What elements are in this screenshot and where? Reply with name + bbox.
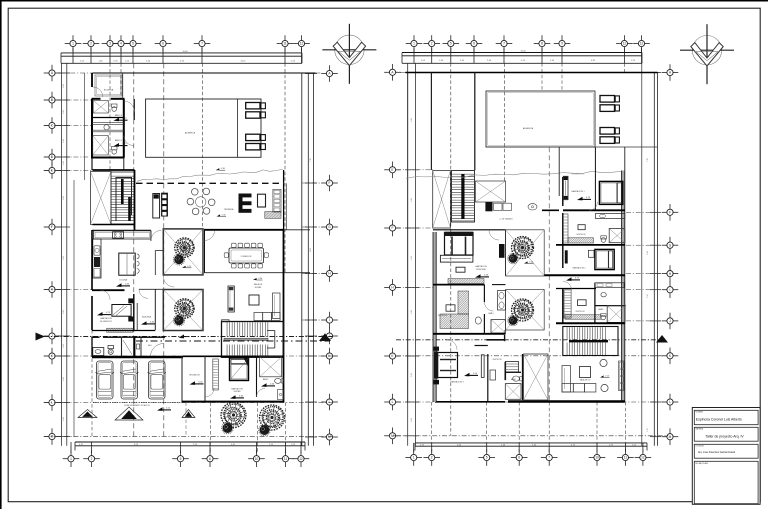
terrace shelf strip	[273, 189, 281, 212]
grid line 7 vertical left-plan	[202, 63, 204, 230]
hab principal tv	[456, 267, 465, 272]
door arc hab2 right-plan	[563, 282, 572, 291]
comedor chairs ends	[224, 253, 268, 258]
title block row 3 - docente	[694, 444, 758, 458]
svg-text:7.30: 7.30	[647, 158, 649, 162]
svg-text:10: 10	[595, 456, 599, 460]
grid bubble 4 top left-plan	[113, 35, 130, 52]
grid bubble K left side right-plan	[384, 348, 401, 365]
wall terrace right inner line	[285, 183, 287, 230]
wall comedor bottom	[204, 272, 310, 274]
wall baths right x124 lower stub	[123, 158, 125, 171]
title block frame	[692, 408, 760, 505]
sheet outer left edge	[0, 0, 2, 509]
svg-text:BAÑO: BAÑO	[488, 312, 494, 315]
svg-text:2.46: 2.46	[63, 310, 65, 314]
level marker patio1 right-plan	[524, 261, 534, 263]
wall left outer upper	[91, 73, 93, 170]
svg-text:2.46: 2.46	[63, 256, 65, 260]
wall row H left-plan	[92, 289, 125, 291]
section cut dashed through stairs	[136, 340, 330, 342]
service nightstand upper dark	[128, 298, 133, 303]
svg-text:ALBERCA: ALBERCA	[185, 132, 196, 135]
hall small box	[137, 344, 140, 349]
svg-text:2: 2	[431, 456, 433, 460]
grid row M datum left-plan	[44, 436, 333, 438]
grid bubble D left side left-plan	[44, 149, 61, 166]
grid line 4 vertical left-plan	[120, 63, 122, 99]
terrace hatched bench	[265, 212, 281, 219]
wall x625 upper right-plan	[624, 147, 626, 171]
hab3 door leaf	[481, 355, 484, 378]
grid line 7b vertical interior right-plan	[548, 147, 550, 402]
level marker recibidor	[190, 381, 204, 385]
grid row M datum right-plan	[393, 435, 668, 437]
wall y275 right-plan	[544, 274, 625, 276]
sala tv sofa L vertical	[562, 366, 571, 393]
svg-text:C. DE LAVADO: C. DE LAVADO	[499, 218, 513, 221]
grid row H datum left-plan	[44, 289, 93, 291]
door arc bano guest	[257, 389, 266, 398]
svg-text:12: 12	[300, 42, 304, 46]
garage car 3	[148, 361, 166, 399]
wall row H door segment	[139, 288, 163, 290]
level marker hab2	[566, 277, 580, 281]
grid bubble H left side right-plan	[384, 279, 401, 296]
grid row G datum right side left-plan	[302, 226, 321, 228]
grid bubble A left side left-plan	[44, 65, 61, 82]
bath guest toilet	[275, 378, 284, 383]
grid line 1 vertical lower left-plan	[70, 446, 72, 453]
grid line 7 vertical right-plan	[504, 63, 506, 181]
door arc service room	[101, 290, 111, 300]
svg-text:11: 11	[623, 42, 627, 46]
bath4 tub	[93, 101, 108, 114]
vestidor4 bench	[490, 370, 496, 380]
grid row H datum right side right-plan	[626, 273, 663, 275]
grid bubble 11 top left-plan	[277, 35, 294, 52]
wall row J piece right-plan	[487, 335, 505, 341]
wall east gray band right-plan	[622, 171, 625, 403]
comedor chairs top row	[232, 243, 263, 247]
grid bubble F left side right-plan	[384, 220, 401, 237]
patio bush upper	[173, 254, 184, 265]
door arc vestidor3 right-plan	[484, 302, 493, 311]
grid bubble F left side left-plan	[44, 219, 61, 236]
wall vestidor2 top y288	[556, 288, 596, 290]
grid bubble 7 top right-plan	[496, 35, 513, 52]
svg-text:6: 6	[162, 42, 164, 46]
garage car 2	[120, 361, 138, 399]
svg-text:8: 8	[541, 42, 543, 46]
svg-text:1.50: 1.50	[647, 294, 649, 298]
svg-text:12: 12	[299, 457, 303, 461]
driveway bush 2	[259, 424, 271, 436]
grid row D datum left-plan	[44, 156, 90, 158]
label HABITACION VISITAS	[231, 387, 243, 393]
grid bubble H right side left-plan	[321, 265, 338, 282]
terrace shelf unit dark	[161, 193, 168, 217]
svg-text:6: 6	[209, 457, 211, 461]
wall gray inner x434 right-plan	[433, 232, 436, 402]
svg-text:7: 7	[503, 42, 505, 46]
pool room alberca rect left-plan	[146, 99, 261, 157]
wall rooms west x563 lower	[562, 289, 564, 324]
svg-text:Espinosa Coronel Luis Alberto: Espinosa Coronel Luis Alberto	[696, 417, 742, 421]
svg-text:2.46: 2.46	[647, 251, 649, 255]
wall hall x134 lower	[134, 337, 136, 357]
patio tree lower	[175, 299, 194, 318]
grid bubble 11 top right-plan	[616, 35, 633, 52]
svg-text:L: L	[392, 400, 394, 404]
level marker alacena	[141, 321, 155, 325]
patio tree upper	[175, 238, 194, 257]
vestidor4 shelf L	[505, 362, 518, 381]
wall alacena right x155	[154, 289, 156, 330]
grid bubble I right side left-plan	[321, 312, 338, 329]
svg-text:ALACENA: ALACENA	[142, 316, 152, 319]
svg-text:MATERIA: MATERIA	[696, 428, 704, 431]
grid line 8 vertical right-plan	[541, 63, 543, 91]
sala sofa L right	[273, 293, 281, 319]
habitacion1 bed	[599, 181, 622, 204]
door arc hab ppal right-plan	[489, 230, 499, 240]
bath divider wall x121	[121, 337, 123, 357]
right dimension band left-plan	[305, 73, 317, 446]
grid bubble 11 bottom left-plan	[277, 450, 294, 467]
stair xbox upper	[91, 172, 112, 225]
grid bubble 2 bottom right-plan	[423, 449, 440, 466]
svg-text:2.46: 2.46	[63, 417, 65, 421]
wall rooms west x563 mid	[562, 213, 564, 268]
wall y334 right-plan	[433, 333, 506, 335]
bath2 toilet2	[601, 314, 606, 320]
grid row B datum left-plan	[44, 99, 92, 101]
comedor dining table	[229, 248, 264, 263]
grid bubble 6 bottom left-plan	[202, 450, 219, 467]
wall stairhall top	[93, 169, 135, 171]
wall rooms top y356 east part	[183, 355, 284, 357]
vestidor1 closet ladder	[563, 214, 568, 243]
svg-text:HABITACION 2: HABITACION 2	[573, 266, 586, 269]
grid bubble 6 bottom right-plan	[511, 449, 528, 466]
grid bubble A left side right-plan	[384, 64, 401, 81]
svg-text:5: 5	[180, 457, 182, 461]
svg-text:6: 6	[473, 42, 475, 46]
patio xbox 1 right-plan	[506, 230, 545, 276]
svg-text:BAÑO 4: BAÑO 4	[115, 114, 123, 117]
grid row K datum right-plan	[396, 355, 663, 357]
svg-text:L: L	[329, 400, 331, 404]
grid bubble 1 bottom right-plan	[405, 449, 422, 466]
svg-text:TERRAZA: TERRAZA	[224, 208, 234, 211]
grid bubble J left side left-plan	[44, 328, 61, 345]
svg-text:PRINCIPAL: PRINCIPAL	[476, 268, 486, 271]
grid line 6 vertical lower left-plan	[209, 403, 211, 454]
hab principal bed	[445, 232, 474, 255]
grid row I datum right side right-plan	[626, 289, 663, 291]
patio kitchen closet stub	[155, 251, 163, 276]
svg-text:12: 12	[640, 42, 644, 46]
svg-text:2: 2	[91, 457, 93, 461]
svg-text:VESTIDOR: VESTIDOR	[575, 311, 585, 313]
slope annotation line terrace	[137, 169, 283, 181]
door arc kitchen	[151, 230, 162, 241]
wall y402 left segment right-plan	[435, 401, 505, 403]
entry arrow row J right	[179, 334, 190, 338]
svg-text:NOMBRE: NOMBRE	[696, 412, 704, 414]
bath2 mid wall	[595, 305, 626, 307]
door arc patio1 left-plan	[163, 276, 174, 287]
grid bubble C left side left-plan	[44, 117, 61, 134]
wall rooms west x563	[562, 177, 564, 206]
grid bubble M left side right-plan	[384, 428, 401, 445]
svg-text:L: L	[669, 400, 671, 404]
wall y245 right-plan	[556, 244, 625, 246]
patio bush 2 right-plan	[508, 315, 518, 325]
grid bubble 5 bottom right-plan	[478, 449, 495, 466]
sheet outer top edge	[0, 0, 768, 2]
stair xbox right-plan	[433, 171, 451, 229]
svg-text:COCINA: COCINA	[119, 279, 128, 282]
habitacion2 nightstand	[588, 250, 594, 257]
vestidor3 hatch horizontal	[440, 314, 469, 329]
terrace coffee table	[258, 194, 266, 207]
grid bubble M left side left-plan	[44, 428, 61, 445]
stairwell right-plan upper	[452, 171, 475, 223]
wall comedor left	[204, 230, 206, 273]
driveway speed bump 2	[115, 407, 143, 420]
hall door arc	[151, 344, 164, 357]
svg-text:HABITACION 3: HABITACION 3	[451, 381, 464, 384]
svg-text:9: 9	[561, 42, 563, 46]
patio tree 1 right-plan	[512, 237, 534, 259]
patio xbox 2 right-plan	[506, 289, 545, 330]
svg-text:FECHA | PLANO: FECHA | PLANO	[696, 462, 709, 465]
grid bubble 12 top left-plan	[293, 35, 310, 52]
level marker sala	[253, 278, 263, 280]
chaise pair 1 pool	[246, 103, 266, 119]
hab ppal closet hatch band	[448, 279, 484, 284]
grid bubble 10 bottom right-plan	[589, 449, 606, 466]
grid line 5 vertical left-plan	[133, 63, 135, 436]
left dimension band right-plan	[405, 63, 419, 446]
laundry tables	[494, 203, 512, 210]
kitchen top counter	[94, 231, 151, 239]
bath2 wall x595	[594, 283, 596, 324]
svg-text:M: M	[328, 435, 331, 439]
grid bubble L left side right-plan	[384, 394, 401, 411]
svg-text:F: F	[329, 181, 331, 185]
svg-text:1: 1	[70, 457, 72, 461]
level marker hab3	[464, 373, 478, 377]
grid bubble A right side left-plan	[321, 65, 338, 82]
patio bush lower	[173, 315, 184, 326]
grid bubble M right side right-plan	[662, 428, 679, 445]
sala tv pouf 1	[600, 359, 607, 366]
grid line 3 vertical left-plan	[109, 63, 111, 170]
level marker sala tv	[600, 375, 610, 377]
section arrow right row J right-plan	[656, 335, 668, 343]
main stair block left-plan	[222, 320, 284, 358]
svg-text:DE SERVICIO: DE SERVICIO	[100, 321, 113, 323]
grid bubble F right side left-plan	[321, 175, 338, 192]
bath guest shower	[278, 390, 284, 400]
wall hab1 divider x595	[594, 147, 596, 210]
svg-text:SALA DE: SALA DE	[254, 283, 263, 286]
wall bath5 bottom	[91, 157, 125, 159]
title block row 4 - fecha y plano	[694, 461, 758, 503]
grid line 11 vertical lower left-plan	[284, 403, 286, 454]
top dimension band left-plan	[61, 48, 302, 63]
level marker patio upper	[182, 266, 192, 268]
wall garage top y357 heavy	[92, 356, 183, 359]
svg-text:F: F	[392, 226, 394, 230]
terrace sideboard cabinet	[153, 194, 160, 219]
bath4 toilet right-plan	[513, 376, 523, 381]
vestidor1 table	[578, 225, 585, 230]
grid row H datum right-plan	[396, 286, 436, 288]
wall comedor top thin east	[284, 229, 310, 231]
bath2 shower xbox	[607, 306, 625, 323]
wall bodega bottom	[92, 98, 125, 100]
grid bubble I right side right-plan	[662, 281, 679, 298]
svg-text:Taller de proyecto Arq. IV: Taller de proyecto Arq. IV	[705, 435, 744, 439]
svg-text:4: 4	[120, 42, 122, 46]
svg-text:7: 7	[201, 42, 203, 46]
vanity counter bath	[92, 123, 124, 132]
wall left outer right-plan	[407, 73, 409, 403]
sala tv sofa bottom row	[562, 384, 596, 393]
grid bubble H left side left-plan	[44, 281, 61, 298]
hab principal bench	[440, 255, 473, 262]
terrace tv console dark	[239, 194, 252, 213]
wall y323 right-plan	[556, 322, 625, 324]
patio bush 1 right-plan	[508, 253, 518, 263]
terrace round dining table	[187, 188, 215, 215]
grid row E datum left-plan	[44, 170, 92, 172]
driveway tree 1	[221, 403, 246, 428]
grid row J datum left-plan	[44, 336, 333, 338]
driveway bush 1	[222, 422, 234, 434]
grid bubble 7 bottom right-plan	[541, 449, 558, 466]
wall patio3 west x523	[522, 354, 524, 400]
grid line 10 vertical lower left-plan	[256, 403, 258, 454]
garage car 1	[96, 361, 114, 399]
svg-text:7: 7	[548, 456, 550, 460]
grid row J2 datum right side right-plan	[626, 320, 663, 322]
wall rooms bottom heavy y402	[182, 401, 284, 403]
hab3 nightstand lower	[434, 380, 440, 385]
habitacion2 bed	[595, 249, 614, 269]
stair treads upper left-plan	[112, 176, 135, 220]
wall row A top left-plan	[93, 72, 316, 74]
chaise pair 2 right-plan	[600, 128, 619, 144]
vestidor1 bottom hatch	[568, 238, 594, 243]
section arrow left row J	[36, 333, 46, 341]
section arrow right row J	[319, 333, 331, 341]
level marker bath4	[114, 118, 128, 122]
svg-text:PENDIENTE 15%: PENDIENTE 15%	[572, 174, 585, 176]
wall alacena left x137	[136, 303, 138, 330]
grid bubble 1 top left-plan	[65, 35, 82, 52]
svg-text:3.46: 3.46	[411, 118, 413, 122]
vestidor2 closet ladder	[564, 290, 571, 318]
patio xbox upper left-plan	[163, 229, 203, 275]
grid line 5 vertical right-plan	[450, 63, 452, 436]
wall kitchen counter jamb x150.9	[150, 231, 152, 241]
svg-text:2.46: 2.46	[63, 139, 65, 143]
svg-text:3.46: 3.46	[411, 310, 413, 314]
hab3 nightstand upper	[434, 347, 440, 351]
grid bubble 3 top left-plan	[102, 35, 119, 52]
driveway speed bump 1	[78, 410, 97, 418]
pool inner edge line left-plan	[237, 99, 239, 157]
svg-text:ALBERCA: ALBERCA	[523, 127, 534, 130]
wall bath4 mid	[92, 117, 124, 119]
grid row L datum left-plan	[44, 402, 333, 404]
svg-text:E: E	[391, 168, 393, 172]
door arc alacena	[139, 289, 148, 298]
sala tv square table	[580, 367, 591, 378]
svg-text:COMEDOR: COMEDOR	[241, 256, 252, 258]
svg-text:2.46: 2.46	[63, 110, 65, 114]
grid row L datum right-plan	[396, 401, 663, 403]
stair treads right-plan upper	[452, 174, 474, 221]
grid bubble A right side right-plan	[662, 64, 679, 81]
grid row A datum right-plan	[400, 72, 662, 74]
grid bubble E left side right-plan	[384, 162, 401, 179]
level marker hab1	[577, 197, 591, 201]
driveway tree 2	[260, 405, 285, 430]
vestidor3 table	[446, 305, 455, 311]
grid row C datum left-plan	[44, 125, 92, 127]
grid line 11 vertical left-plan	[284, 63, 286, 273]
grid bubble 2 top left-plan	[83, 35, 100, 52]
vestidor4 wall y372	[505, 371, 521, 373]
bath2 counter band	[595, 283, 624, 288]
grid bubble F right side right-plan	[662, 204, 679, 221]
svg-text:RECIBIDOR: RECIBIDOR	[189, 375, 200, 377]
svg-text:ESTACIONAMIENTO P/3 AUTOS: ESTACIONAMIENTO P/3 AUTOS	[124, 404, 150, 407]
bath5 shower	[93, 136, 109, 156]
door arc hab1 right-plan	[589, 202, 598, 211]
door arc bodega	[93, 87, 103, 97]
bath1 counter band	[595, 214, 624, 219]
pool inner line right-plan	[488, 93, 593, 145]
grid bubble 5 bottom left-plan	[172, 450, 189, 467]
label SALA DE ESTAR	[254, 283, 263, 289]
grid bubble G right side right-plan	[662, 237, 679, 254]
grid bubble 6 top left-plan	[155, 35, 172, 52]
svg-text:2.46: 2.46	[63, 161, 65, 165]
grid bubble 11 bottom right-plan	[617, 449, 634, 466]
chaise pair 1 right-plan	[600, 96, 619, 112]
svg-text:5: 5	[486, 456, 488, 460]
patio xbox 3 right-plan	[524, 354, 549, 400]
grid bubble 2 top right-plan	[423, 35, 440, 52]
wall kitchen top	[92, 229, 151, 231]
patio tree 2 right-plan	[512, 299, 534, 321]
svg-text:BAÑO: BAÑO	[598, 308, 604, 311]
service room bed	[112, 305, 131, 317]
svg-text:5: 5	[132, 42, 134, 46]
grid bubble L left side left-plan	[44, 394, 61, 411]
service closet hatch	[107, 328, 133, 332]
door arc bano5 left-plan	[124, 136, 134, 146]
bath toilet lower	[108, 346, 114, 355]
wall terrace outer x302	[301, 73, 303, 446]
